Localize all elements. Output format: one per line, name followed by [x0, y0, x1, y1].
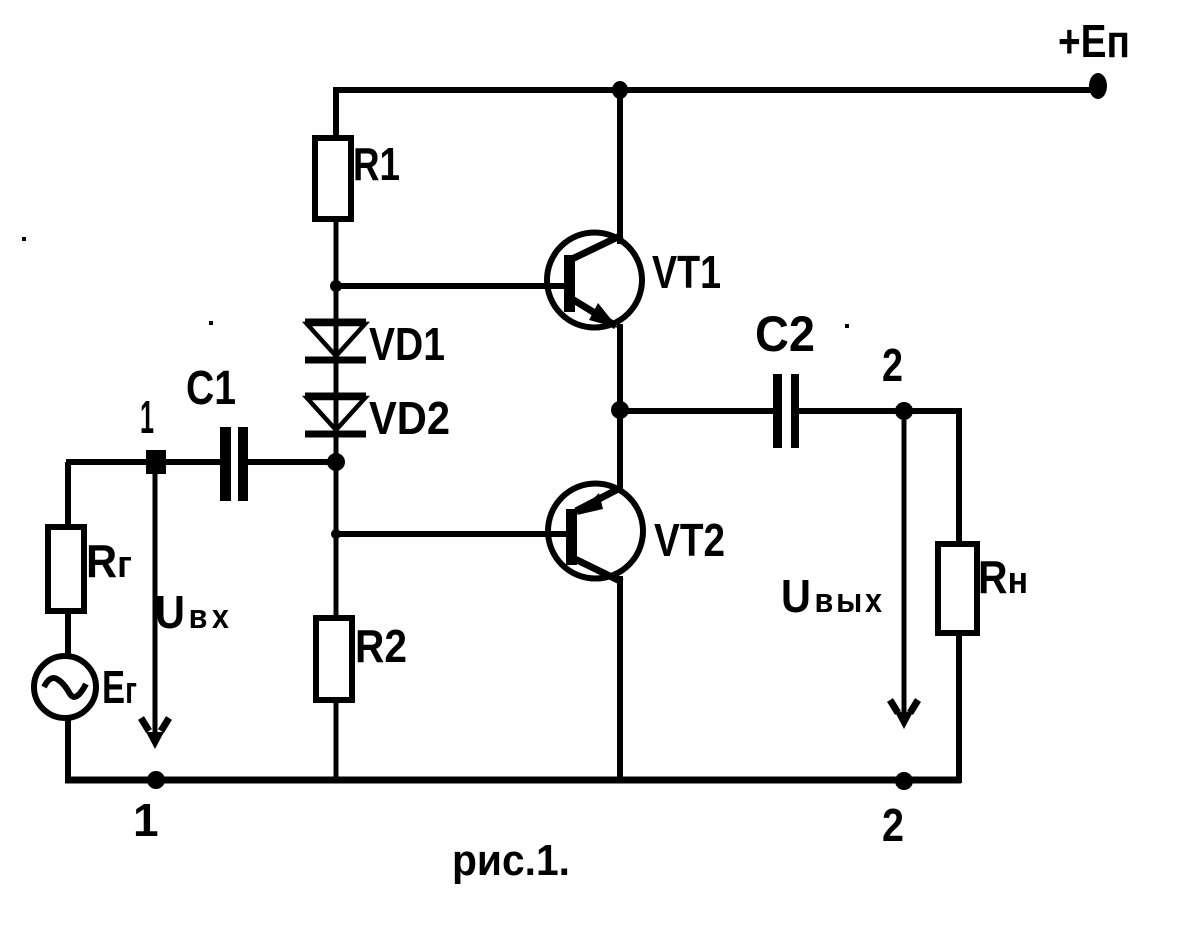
wire: left column down from node1: [65, 462, 71, 530]
capacitor C1: [220, 427, 248, 501]
node 1 (bottom): [147, 771, 165, 789]
arrow Uвых: [890, 420, 918, 729]
wire: VT1 emitter: [617, 324, 623, 414]
svg-text:VD2: VD2: [369, 392, 450, 444]
capacitor C2: [773, 374, 799, 448]
svg-text:R2: R2: [355, 620, 407, 672]
wire: output to C2: [620, 408, 775, 414]
node: VT2 base junction: [331, 529, 341, 539]
wire: VT2 collector: [617, 576, 623, 783]
wire: node1 to C1 left plate: [66, 459, 221, 465]
node: collector on top rail: [612, 81, 628, 99]
svg-text:рис.1.: рис.1.: [452, 836, 570, 885]
svg-text:C2: C2: [755, 306, 815, 362]
arrow Uвх: [141, 474, 169, 749]
svg-text:+Еп: +Еп: [1058, 15, 1130, 67]
svg-text:2: 2: [882, 339, 903, 391]
wire: R2 to bottom rail: [334, 700, 339, 780]
wire: VT1 base: [336, 283, 566, 289]
diode VD1: [305, 322, 366, 360]
speck: [22, 237, 26, 241]
speck: [845, 324, 849, 328]
svg-text:1: 1: [140, 391, 154, 443]
svg-text:VT1: VT1: [652, 246, 721, 298]
node 1 (top): [146, 450, 166, 474]
svg-text:VD1: VD1: [369, 318, 445, 370]
resistor Rг: [48, 527, 84, 611]
node 2 (top): [895, 402, 913, 420]
svg-text:VT2: VT2: [654, 514, 725, 566]
wire: VT2 base: [336, 531, 568, 537]
diode VD2: [305, 396, 366, 434]
wire: Rг to Ег: [65, 611, 71, 658]
node: +Ep terminal dot: [1089, 73, 1107, 99]
resistor R2: [316, 618, 352, 700]
wire: C2 to right corner: [798, 408, 962, 414]
wire: top supply rail: [333, 87, 1100, 93]
wire: Ег to bottom rail: [65, 718, 71, 783]
wire: C1 right plate to column: [247, 459, 336, 465]
wire: VT2 emitter: [617, 408, 623, 490]
svg-text:1: 1: [133, 794, 159, 846]
svg-text:C1: C1: [186, 362, 236, 415]
transistor VT1: [547, 233, 642, 329]
transistor VT2: [548, 484, 643, 583]
node 2 (bottom): [895, 772, 913, 790]
wire: right column top: [956, 408, 962, 547]
wire: column to R2: [334, 462, 339, 620]
speck: [209, 321, 213, 325]
wire: bottom rail: [65, 777, 961, 784]
svg-text:R1: R1: [353, 138, 400, 190]
svg-text:2: 2: [882, 799, 904, 851]
resistor Rн: [938, 544, 977, 633]
node: output junction: [611, 401, 629, 419]
source Ег: [34, 656, 96, 718]
resistor R1: [315, 138, 351, 219]
node: C1/VD2 junction: [327, 453, 345, 471]
wire: main left column (R1 bottom to node C1): [334, 219, 339, 462]
wire: VT1 collector: [617, 87, 623, 244]
node: VT1 base junction: [330, 280, 342, 292]
wire: right column bottom: [956, 633, 962, 783]
wire: R1 top lead: [333, 87, 339, 140]
